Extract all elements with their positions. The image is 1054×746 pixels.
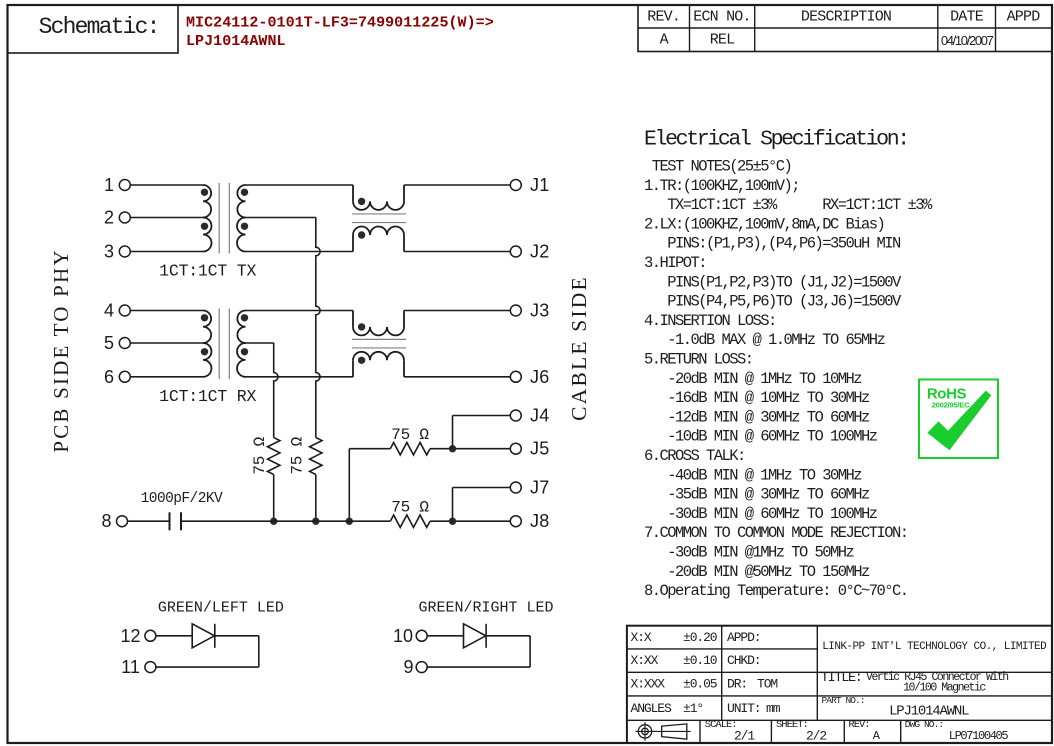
wire pin3 to T1 primary (130, 251, 203, 253)
wire pin5 to T2 primary center tap (130, 342, 203, 344)
svg-text:J3: J3 (530, 301, 550, 321)
pin 5 terminal (119, 338, 130, 349)
svg-text:-12dB MIN @ 30MHz TO 60MHz: -12dB MIN @ 30MHz TO 60MHz (644, 408, 870, 426)
svg-text:A: A (873, 729, 881, 743)
junction rail/R3 branch (346, 518, 353, 525)
T2 secondary polarity dot lower (241, 348, 248, 355)
svg-text:CABLE SIDE: CABLE SIDE (567, 275, 591, 421)
wire pin6 to T2 primary (130, 376, 203, 378)
svg-text:5.RETURN LOSS:: 5.RETURN LOSS: (644, 351, 753, 369)
svg-text:±0.20: ±0.20 (683, 630, 717, 645)
pin 3 terminal (119, 246, 130, 257)
pin 1 terminal (119, 180, 130, 191)
wire choke L2 top to J3 (404, 310, 510, 312)
svg-text:1000pF/2KV: 1000pF/2KV (141, 491, 223, 507)
LED D1 (left) diode and loop (145, 630, 156, 641)
wire T2 secondary top to choke L2 (246, 310, 354, 312)
svg-text:LPJ1014AWNL: LPJ1014AWNL (186, 33, 286, 50)
resistor R1 75 Ohm (RX tap) (268, 438, 280, 475)
svg-text:MIC24112-0101T-LF3=7499011225(: MIC24112-0101T-LF3=7499011225(W)=> (186, 14, 494, 31)
junction J4/J5 node (449, 445, 456, 452)
svg-text:APPD:: APPD: (727, 630, 761, 645)
svg-text:ANGLES: ANGLES (631, 701, 673, 716)
svg-text:1.TR:(100KHZ,100mV);: 1.TR:(100KHZ,100mV); (644, 177, 799, 195)
svg-text:DATE: DATE (950, 9, 984, 26)
svg-text:12: 12 (120, 626, 140, 646)
T1 secondary polarity dot lower (241, 223, 248, 230)
terminal J3 (510, 305, 521, 316)
svg-text:DESCRIPTION: DESCRIPTION (801, 9, 891, 26)
svg-text:3.HIPOT:: 3.HIPOT: (644, 254, 706, 272)
svg-text:GREEN/RIGHT LED: GREEN/RIGHT LED (418, 600, 553, 617)
junction R1/rail (270, 518, 277, 525)
svg-text:PINS(P1,P2,P3)TO (J1,J2)=1500V: PINS(P1,P2,P3)TO (J1,J2)=1500V (644, 273, 902, 291)
wire RX center-tap drop (with crossover) (274, 343, 278, 438)
wire T1 secondary bottom to choke L1 (246, 251, 354, 253)
svg-text:REV.: REV. (647, 9, 680, 26)
wire pin4 to T2 primary (130, 310, 203, 312)
svg-text:75 Ω: 75 Ω (391, 498, 429, 516)
wire R3 to junction (430, 448, 510, 450)
svg-text:-40dB MIN @ 1MHz TO 30MHz: -40dB MIN @ 1MHz TO 30MHz (644, 466, 862, 484)
svg-text:J5: J5 (530, 439, 550, 459)
wire junction up to J4 (452, 416, 454, 449)
svg-text:-30dB MIN @1MHz TO 50MHz: -30dB MIN @1MHz TO 50MHz (644, 544, 855, 562)
svg-text:UNIT:: UNIT: (727, 701, 761, 716)
svg-text:±1°: ±1° (683, 701, 703, 716)
terminal J6 (510, 371, 521, 382)
transformer T2 secondary winding (237, 311, 245, 344)
terminal J2 (510, 246, 521, 257)
svg-text:TEST NOTES(25±5°C): TEST NOTES(25±5°C) (644, 158, 791, 176)
resistor R4 75 Ohm (390, 515, 430, 527)
RoHS checkmark (927, 391, 991, 451)
junction J7/J8 node (449, 518, 456, 525)
svg-text:DR:: DR: (727, 677, 747, 692)
svg-text:J7: J7 (530, 478, 550, 498)
svg-text:1: 1 (104, 175, 114, 195)
wire to resistor R3 (349, 448, 390, 450)
wire TX center-tap drop (with crossovers) (316, 218, 320, 438)
svg-text:J1: J1 (530, 175, 550, 195)
svg-text:2.LX:(100KHZ,100mV,8mA,DC Bias: 2.LX:(100KHZ,100mV,8mA,DC Bias) (644, 215, 884, 233)
terminal J4 (510, 410, 521, 421)
transformer T2 primary winding (203, 311, 211, 344)
T1 primary polarity dot lower (201, 223, 208, 230)
wire rail branch up to R3 (348, 449, 350, 522)
pin 8 terminal (117, 516, 128, 527)
terminal J5 (510, 443, 521, 454)
pin 2 terminal (119, 212, 130, 223)
RoHS logo box (919, 380, 998, 459)
third-angle projection symbol (638, 725, 651, 738)
svg-text:PCB SIDE TO PHY: PCB SIDE TO PHY (49, 248, 73, 452)
wire pin8 to C1 (128, 520, 170, 522)
svg-text:TOM: TOM (757, 677, 777, 692)
svg-text:±0.05: ±0.05 (683, 677, 717, 692)
transformer T1 secondary winding (237, 185, 245, 218)
wire T1 secondary top to choke L1 (246, 184, 354, 186)
transformer T1 primary winding (203, 185, 211, 218)
svg-text:ECN NO.: ECN NO. (693, 9, 750, 26)
pin 4 terminal (119, 305, 130, 316)
svg-text:X:XXX: X:XXX (631, 677, 666, 692)
svg-text:2/2: 2/2 (806, 729, 826, 744)
svg-text:PINS(P4,P5,P6)TO (J3,J6)=1500V: PINS(P4,P5,P6)TO (J3,J6)=1500V (644, 293, 902, 311)
wire choke L1 top to J1 (404, 184, 510, 186)
svg-text:-16dB MIN @ 10MHz TO 30MHz: -16dB MIN @ 10MHz TO 30MHz (644, 389, 870, 407)
T2 secondary polarity dot upper (241, 314, 248, 321)
junction R2/rail (312, 518, 319, 525)
wire choke L2 bottom to J6 (404, 376, 510, 378)
svg-text:Electrical Specification:: Electrical Specification: (644, 128, 908, 152)
svg-text:-30dB MIN @ 60MHz TO 100MHz: -30dB MIN @ 60MHz TO 100MHz (644, 505, 878, 523)
svg-text:8.Operating Temperature: 0°C~7: 8.Operating Temperature: 0°C~70°C. (644, 582, 908, 600)
wire R4 to junction (430, 520, 510, 522)
terminal J8 (510, 516, 521, 527)
wire junction up to J7 (452, 488, 454, 522)
T1 secondary polarity dot upper (241, 189, 248, 196)
svg-text:10: 10 (393, 626, 413, 646)
wire T2 secondary bottom to choke L2 (246, 376, 354, 378)
svg-text:1CT:1CT RX: 1CT:1CT RX (159, 387, 256, 406)
svg-text:-1.0dB MAX @ 1.0MHz TO 65MHz: -1.0dB MAX @ 1.0MHz TO 65MHz (644, 331, 886, 349)
common-mode choke L1 (TX) (352, 185, 354, 201)
svg-text:TX=1CT:1CT ±3% RX=1CT:1CT: TX=1CT:1CT ±3% RX=1CT:1CT ±3% (644, 196, 933, 214)
pin 6 terminal (119, 371, 130, 382)
svg-text:9: 9 (403, 657, 413, 677)
svg-text:SCALE:: SCALE: (705, 719, 737, 731)
T1 primary polarity dot upper (201, 189, 208, 196)
common-mode choke L2 (RX) (352, 311, 354, 327)
svg-text:4: 4 (104, 301, 114, 321)
svg-text:LP07100405: LP07100405 (949, 729, 1009, 743)
transformer T1 core (218, 183, 220, 254)
terminal J7 (510, 482, 521, 493)
svg-text:11: 11 (121, 657, 140, 677)
svg-text:CHKD:: CHKD: (727, 653, 761, 668)
wire pin1 to T1 primary (130, 184, 203, 186)
svg-text:Schematic:: Schematic: (39, 14, 159, 40)
svg-text:7.COMMON TO COMMON MODE REJECT: 7.COMMON TO COMMON MODE REJECTION: (644, 524, 908, 542)
svg-text:4.INSERTION LOSS:: 4.INSERTION LOSS: (644, 312, 776, 330)
svg-text:75 Ω: 75 Ω (289, 436, 307, 474)
T2 primary polarity dot upper (201, 314, 208, 321)
svg-text:A: A (660, 32, 669, 49)
svg-text:X:X: X:X (631, 630, 652, 645)
svg-text:-10dB MIN @ 60MHz TO 100MHz: -10dB MIN @ 60MHz TO 100MHz (644, 428, 878, 446)
svg-text:PART NO.:: PART NO.: (822, 695, 865, 706)
svg-text:-35dB MIN @ 30MHz TO 60MHz: -35dB MIN @ 30MHz TO 60MHz (644, 486, 870, 504)
svg-text:TITLE:: TITLE: (821, 671, 862, 686)
wire R1 to bottom rail (273, 475, 275, 522)
svg-text:75 Ω: 75 Ω (251, 436, 269, 474)
wire R2 to bottom rail (315, 475, 317, 522)
svg-text:LPJ1014AWNL: LPJ1014AWNL (889, 704, 969, 720)
LED D2 (right) diode and loop (416, 630, 427, 641)
svg-text:PINS:(P1,P3),(P4,P6)=350uH MIN: PINS:(P1,P3),(P4,P6)=350uH MIN (644, 235, 901, 253)
svg-text:6: 6 (104, 367, 114, 387)
svg-text:2002/95/EC: 2002/95/EC (932, 400, 970, 409)
svg-text:75 Ω: 75 Ω (391, 426, 429, 444)
wire pin2 to T1 primary center tap (130, 217, 203, 219)
svg-text:04/10/2007: 04/10/2007 (941, 33, 994, 48)
capacitor C1 1000pF/2KV (169, 512, 171, 530)
resistor R3 75 Ohm (390, 443, 430, 455)
svg-text:6.CROSS TALK:: 6.CROSS TALK: (644, 447, 745, 465)
svg-text:1CT:1CT TX: 1CT:1CT TX (159, 261, 256, 280)
svg-text:2/1: 2/1 (734, 729, 755, 744)
svg-text:SHEET:: SHEET: (776, 719, 808, 731)
title block grid (627, 626, 1052, 743)
svg-text:J6: J6 (530, 367, 550, 387)
transformer T2 core (218, 309, 220, 380)
title box 'Schematic:' (8, 5, 179, 53)
svg-text:10/100 Magnetic: 10/100 Magnetic (903, 682, 986, 695)
svg-text:±0.10: ±0.10 (683, 653, 717, 668)
wire T2 secondary center tap (246, 342, 274, 344)
wire choke L1 bottom to J2 (404, 251, 510, 253)
resistor R2 75 Ohm (TX tap) (310, 438, 322, 475)
svg-text:GREEN/LEFT LED: GREEN/LEFT LED (158, 600, 284, 617)
svg-text:-20dB MIN @ 1MHz TO 10MHz: -20dB MIN @ 1MHz TO 10MHz (644, 370, 862, 388)
svg-text:REV:: REV: (848, 719, 869, 731)
svg-text:DWG NO.:: DWG NO.: (905, 719, 943, 730)
svg-text:X:XX: X:XX (631, 653, 659, 668)
bottom common rail wire (181, 520, 390, 522)
terminal J1 (510, 180, 521, 191)
svg-text:J4: J4 (530, 406, 550, 426)
svg-text:mm: mm (766, 701, 781, 716)
svg-text:8: 8 (101, 511, 111, 531)
svg-text:APPD: APPD (1007, 9, 1041, 26)
svg-text:-20dB MIN @50MHz TO 150MHz: -20dB MIN @50MHz TO 150MHz (644, 563, 870, 581)
svg-text:J8: J8 (530, 511, 550, 531)
revision table grid (638, 5, 1052, 52)
svg-text:REL: REL (710, 32, 735, 49)
T2 primary polarity dot lower (201, 348, 208, 355)
svg-text:LINK-PP INT'L TECHNOLOGY CO.,: LINK-PP INT'L TECHNOLOGY CO., LIMITED (822, 641, 1047, 653)
svg-text:2: 2 (104, 208, 114, 228)
wire T1 secondary center tap (246, 217, 316, 219)
svg-text:3: 3 (104, 242, 114, 262)
svg-text:5: 5 (104, 333, 114, 353)
svg-text:J2: J2 (530, 242, 550, 262)
